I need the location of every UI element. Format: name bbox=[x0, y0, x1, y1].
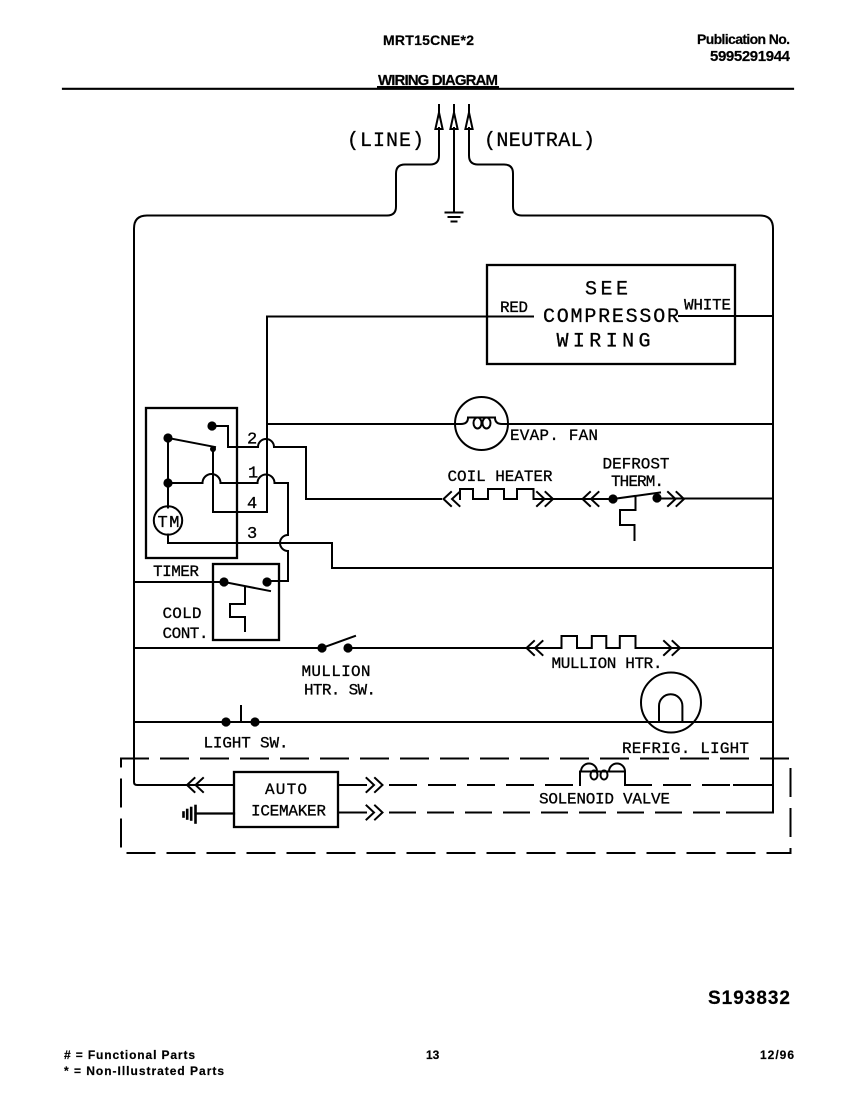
wire white lead bbox=[679, 315, 773, 317]
header rule bbox=[63, 88, 793, 90]
ground symbol bbox=[446, 213, 463, 222]
svg-text:MRT15CNE*2: MRT15CNE*2 bbox=[383, 32, 474, 48]
svg-text:13: 13 bbox=[426, 1048, 440, 1062]
plug prong arrow ground bbox=[450, 105, 457, 129]
svg-text:THERM.: THERM. bbox=[611, 473, 664, 491]
wire timer terminal 1 bbox=[168, 474, 288, 581]
svg-text:Publication No.: Publication No. bbox=[697, 31, 790, 47]
timer contact dot A bbox=[207, 421, 216, 430]
light switch contact left bbox=[221, 717, 230, 726]
svg-text:1: 1 bbox=[248, 465, 258, 484]
resistor mullion heater bbox=[562, 636, 636, 648]
svg-text:CONT.: CONT. bbox=[163, 625, 209, 643]
wire timer terminal 4 bbox=[213, 317, 267, 513]
wire mullion row middle bbox=[348, 647, 562, 649]
connector arrows coil heater left bbox=[444, 492, 460, 506]
svg-text:(LINE): (LINE) bbox=[347, 130, 424, 153]
svg-text:HTR. SW.: HTR. SW. bbox=[304, 681, 376, 699]
timer switch lever bbox=[168, 438, 215, 447]
plug prong arrow neutral bbox=[465, 105, 472, 129]
cold control box bbox=[213, 564, 279, 640]
svg-text:COIL HEATER: COIL HEATER bbox=[448, 468, 553, 486]
timer box bbox=[146, 408, 237, 558]
svg-text:TIMER: TIMER bbox=[153, 563, 199, 581]
defrost thermostat lever bbox=[613, 493, 660, 500]
svg-text:SOLENOID VALVE: SOLENOID VALVE bbox=[539, 790, 670, 808]
svg-text:DEFROST: DEFROST bbox=[603, 455, 670, 473]
solenoid valve coil L1 bbox=[580, 764, 625, 786]
svg-text:EVAP. FAN: EVAP. FAN bbox=[510, 427, 598, 445]
heading underline bbox=[378, 86, 498, 88]
wire defrost row bbox=[534, 498, 614, 500]
wire light row bbox=[134, 721, 773, 723]
svg-text:(NEUTRAL): (NEUTRAL) bbox=[484, 130, 595, 153]
connector arrows mullion right bbox=[664, 641, 680, 655]
wire timer terminal 2 bbox=[212, 426, 441, 499]
auto icemaker box bbox=[234, 772, 338, 827]
svg-text:LIGHT SW.: LIGHT SW. bbox=[204, 735, 289, 753]
svg-text:MULLION: MULLION bbox=[302, 663, 371, 681]
wire timer terminal 3 bbox=[168, 535, 773, 569]
svg-text:RED: RED bbox=[500, 299, 528, 317]
wire cold control row bbox=[134, 581, 224, 583]
wire ground prong stem bbox=[453, 128, 455, 211]
defrost thermostat contact left bbox=[608, 494, 617, 503]
svg-text:S193832: S193832 bbox=[708, 988, 790, 1009]
connector arrows defrost right bbox=[668, 492, 684, 506]
plug prong arrow line bbox=[435, 105, 442, 129]
connector arrows icemaker left bbox=[187, 778, 203, 792]
timer motor TM bbox=[154, 506, 182, 534]
defrost bimetal bbox=[620, 496, 636, 540]
svg-text:5995291944: 5995291944 bbox=[710, 48, 791, 65]
light switch lever bbox=[240, 706, 242, 722]
svg-text:AUTO: AUTO bbox=[265, 781, 307, 799]
svg-text:ICEMAKER: ICEMAKER bbox=[251, 803, 326, 821]
icemaker ground symbol bbox=[184, 806, 235, 823]
defrost thermostat contact right bbox=[652, 493, 661, 502]
wire defrost to border bbox=[657, 498, 773, 500]
svg-text:* = Non-Illustrated Parts: * = Non-Illustrated Parts bbox=[64, 1064, 224, 1078]
cold control bimetal bbox=[230, 587, 245, 631]
wire icemaker out top bbox=[338, 784, 366, 786]
compressor box U1 bbox=[487, 265, 735, 364]
wire icemaker out bottom bbox=[338, 812, 366, 814]
cold control contact right bbox=[262, 577, 271, 586]
timer contact dot C bbox=[210, 446, 216, 452]
mullion switch contact right bbox=[343, 643, 352, 652]
connector arrows icemaker out bottom bbox=[367, 806, 383, 820]
wire evap fan row right bbox=[508, 423, 773, 425]
wire mullion row right bbox=[636, 647, 774, 649]
svg-text:COMPRESSOR: COMPRESSOR bbox=[543, 306, 679, 329]
connector arrows mullion left bbox=[527, 641, 543, 655]
cold control contact left bbox=[219, 577, 228, 586]
timer contact dot B bbox=[163, 433, 172, 442]
svg-text:MULLION HTR.: MULLION HTR. bbox=[552, 655, 663, 673]
wire solenoid row dashed bbox=[390, 784, 735, 786]
svg-text:SEE: SEE bbox=[585, 279, 628, 302]
connector arrows coil heater right bbox=[537, 492, 553, 506]
svg-text:REFRIG. LIGHT: REFRIG. LIGHT bbox=[622, 740, 749, 758]
wire mullion row left bbox=[134, 647, 322, 649]
svg-text:WIRING: WIRING bbox=[557, 331, 651, 354]
svg-text:COLD: COLD bbox=[163, 605, 202, 623]
connector arrows icemaker out top bbox=[367, 778, 383, 792]
cold control lever bbox=[224, 582, 270, 591]
light switch contact right bbox=[250, 717, 259, 726]
evap fan motor M1 bbox=[455, 397, 508, 450]
svg-text:TM: TM bbox=[158, 514, 180, 533]
resistor coil heater bbox=[460, 489, 534, 499]
wire red lead bbox=[267, 317, 533, 425]
wire timer left column bbox=[167, 438, 169, 508]
wire neutral prong to enclosure top right bbox=[469, 128, 773, 812]
wire evap fan row bbox=[267, 423, 455, 425]
svg-text:3: 3 bbox=[247, 525, 257, 544]
connector arrows defrost left bbox=[583, 492, 599, 506]
svg-text:# = Functional Parts: # = Functional Parts bbox=[64, 1048, 195, 1062]
refrigerator light lamp bbox=[641, 673, 701, 733]
icemaker dashed enclosure bbox=[121, 759, 791, 854]
wire line prong to enclosure top left bbox=[134, 128, 439, 785]
mullion switch contact left bbox=[317, 643, 326, 652]
timer contact dot D bbox=[163, 478, 172, 487]
mullion switch lever bbox=[322, 636, 355, 648]
svg-text:WHITE: WHITE bbox=[684, 297, 731, 315]
wire icemaker bottom dashed bbox=[390, 812, 727, 814]
svg-text:12/96: 12/96 bbox=[760, 1048, 794, 1062]
